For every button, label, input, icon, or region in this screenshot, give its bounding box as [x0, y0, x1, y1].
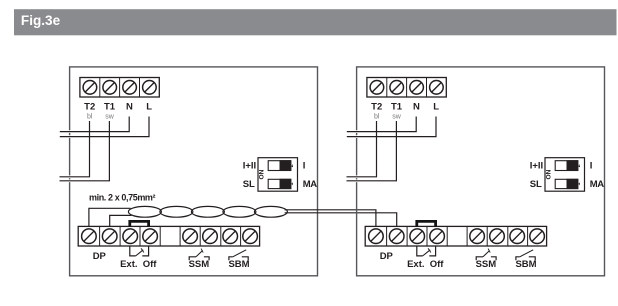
DIP switch actuator 1 (SL / MA): [555, 179, 578, 189]
terminal N screw (pump 1): [123, 81, 137, 95]
svg-text:bl: bl: [87, 114, 93, 121]
terminal N screw (pump 2): [410, 81, 424, 95]
terminal block X1 (pump 1): mains + thermostat terminals: [80, 78, 159, 98]
svg-text:MA: MA: [303, 179, 318, 190]
terminal SSM a screw (pump 1): [183, 229, 198, 244]
svg-text:SL: SL: [243, 179, 255, 190]
terminal T1 screw (pump 1): [103, 81, 117, 95]
svg-text:I: I: [303, 161, 306, 172]
svg-text:I+II: I+II: [530, 161, 543, 172]
DIP switch actuator 1 (SL / MA): [268, 179, 291, 189]
terminal SSM b screw (pump 1): [203, 229, 218, 244]
wire T1 (pump 2): [347, 121, 397, 181]
terminal T1 screw (pump 2): [390, 81, 404, 95]
terminal SSM b screw (pump 2): [490, 229, 505, 244]
relay contact SSM (pump 2): [476, 249, 496, 261]
switch contact Ext. Off (pump 2): [417, 246, 436, 256]
svg-text:bl: bl: [374, 114, 380, 121]
svg-text:L: L: [433, 102, 439, 113]
terminal L screw (pump 1): [143, 81, 157, 95]
terminal SSM a screw (pump 2): [470, 229, 485, 244]
DIP switch actuator 2 (I+II / I): [268, 160, 291, 171]
wire cable to DP b (pump 2): [285, 213, 397, 227]
terminal block X2 (pump 1): DP / Ext.Off / SSM / SBM: [78, 226, 259, 246]
svg-text:N: N: [413, 102, 420, 113]
svg-text:2: 2: [576, 164, 582, 167]
wire N (pump 2): [347, 117, 416, 132]
terminal DP a screw (pump 1): [82, 229, 97, 244]
svg-text:Off: Off: [430, 259, 445, 270]
wire L (pump 1): [60, 117, 149, 137]
twisted-pair cable DP bus (5 twists): [128, 206, 287, 217]
svg-text:min. 2 x 0,75mm²: min. 2 x 0,75mm²: [89, 193, 156, 203]
terminal Ext.Off b screw (pump 2): [430, 229, 445, 244]
jumper bridge across Ext.Off terminals (pump 2): [417, 221, 436, 227]
relay contact SBM (pump 2): [516, 250, 535, 260]
terminal SBM a screw (pump 2): [510, 229, 525, 244]
svg-text:Fig.3e: Fig.3e: [21, 13, 61, 28]
svg-text:1: 1: [576, 183, 582, 186]
DIP switch S1 (pump 2): [545, 158, 585, 192]
svg-text:SSM: SSM: [476, 259, 497, 270]
svg-text:T1: T1: [104, 102, 116, 113]
svg-text:sw: sw: [392, 114, 402, 121]
terminal Ext.Off a screw (pump 1): [123, 229, 138, 244]
pump 2 module enclosure: [355, 67, 604, 276]
svg-text:SL: SL: [530, 179, 542, 190]
terminal SBM a screw (pump 1): [223, 229, 238, 244]
terminal Ext.Off b screw (pump 1): [143, 229, 158, 244]
svg-text:T2: T2: [371, 102, 382, 113]
switch contact Ext. Off (pump 1): [130, 246, 149, 256]
wire N (pump 1): [60, 117, 129, 132]
terminal T2 screw (pump 1): [83, 81, 97, 95]
svg-text:DP: DP: [380, 251, 394, 262]
relay contact SSM (pump 1): [189, 249, 209, 261]
wire T2 (pump 1): [60, 121, 90, 177]
terminal DP a screw (pump 2): [369, 229, 384, 244]
svg-text:ON: ON: [258, 169, 265, 179]
terminal block X1 (pump 2): mains + thermostat terminals: [367, 78, 446, 98]
terminal SBM b screw (pump 1): [243, 229, 258, 244]
svg-text:SBM: SBM: [228, 259, 249, 270]
wire L (pump 2): [347, 117, 436, 137]
jumper bridge across Ext.Off terminals (pump 1): [130, 221, 149, 227]
terminal L screw (pump 2): [430, 81, 444, 95]
wire T2 (pump 2): [347, 121, 377, 177]
terminal block X2 (pump 2): DP / Ext.Off / SSM / SBM: [365, 226, 546, 246]
terminal SBM b screw (pump 2): [530, 229, 545, 244]
svg-text:Ext.: Ext.: [120, 259, 137, 270]
svg-text:MA: MA: [590, 179, 605, 190]
svg-text:T1: T1: [391, 102, 403, 113]
svg-text:I: I: [590, 161, 593, 172]
svg-text:2: 2: [289, 164, 295, 167]
DIP switch S1 (pump 1): [258, 158, 298, 192]
svg-text:Off: Off: [143, 259, 158, 270]
terminal T2 screw (pump 2): [370, 81, 384, 95]
terminal Ext.Off a screw (pump 2): [410, 229, 425, 244]
terminal DP b screw (pump 1): [102, 229, 117, 244]
svg-text:SSM: SSM: [189, 259, 210, 270]
wire DP a to cable (pump 1): [89, 208, 131, 226]
svg-text:SBM: SBM: [515, 259, 536, 270]
svg-text:I+II: I+II: [243, 161, 256, 172]
svg-text:ON: ON: [545, 169, 552, 179]
svg-text:sw: sw: [105, 114, 115, 121]
svg-text:L: L: [146, 102, 152, 113]
svg-text:T2: T2: [84, 102, 95, 113]
svg-text:DP: DP: [93, 251, 107, 262]
svg-text:Ext.: Ext.: [407, 259, 424, 270]
svg-text:1: 1: [289, 183, 295, 186]
pump 1 module enclosure: [68, 67, 317, 276]
wire T1 (pump 1): [60, 121, 110, 181]
figure title bar Fig.3e: [14, 9, 617, 35]
wire DP b to cable (pump 1): [110, 215, 132, 226]
wire cable to DP a (pump 2): [285, 210, 376, 227]
svg-text:N: N: [126, 102, 133, 113]
relay contact SBM (pump 1): [229, 250, 248, 260]
DIP switch actuator 2 (I+II / I): [555, 160, 578, 171]
terminal DP b screw (pump 2): [389, 229, 404, 244]
